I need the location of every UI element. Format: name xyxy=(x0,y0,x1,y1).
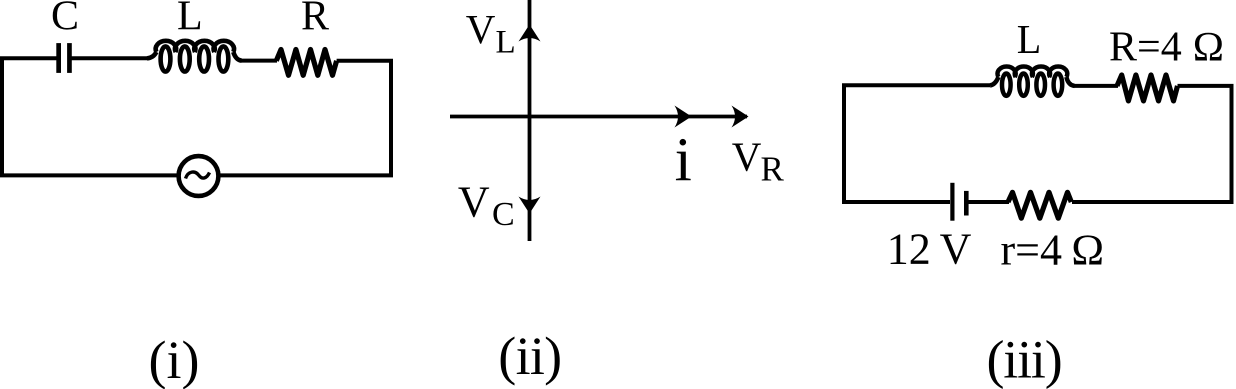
inductor L (4-loop coil) xyxy=(990,66,1075,95)
svg-text:V: V xyxy=(732,133,762,179)
svg-text:r=4 Ω: r=4 Ω xyxy=(1001,225,1105,274)
battery cell 12V: long plate xyxy=(950,183,954,221)
wire: left edge loop (from battery, up left side, to inductor) xyxy=(844,85,990,202)
wire: inductor to resistor xyxy=(241,59,277,63)
battery cell 12V: short plate xyxy=(964,191,969,216)
wire: resistor R to top-right corner, down right edge, along bottom to resistor r xyxy=(1072,86,1232,202)
AC source sine symbol xyxy=(186,172,210,178)
svg-text:(iii): (iii) xyxy=(987,330,1062,389)
axis: vertical line xyxy=(528,0,532,241)
svg-text:R: R xyxy=(301,0,329,39)
arrowhead: up (V_L direction) xyxy=(519,25,541,42)
resistor R (zigzag) xyxy=(276,50,336,76)
svg-text:(ii): (ii) xyxy=(498,326,561,386)
svg-text:(i): (i) xyxy=(149,330,200,389)
arrowhead: mid (i direction) xyxy=(675,106,692,128)
svg-text:R=4 Ω: R=4 Ω xyxy=(1109,24,1224,70)
svg-text:R: R xyxy=(761,150,785,189)
wire: bottom-left loop (left of AC source, up left edge, to capacitor) xyxy=(2,58,179,175)
capacitor C (two plates) xyxy=(59,43,70,73)
svg-text:i: i xyxy=(675,127,692,195)
svg-text:L: L xyxy=(1017,16,1042,62)
inductor L (4-loop coil) xyxy=(147,41,242,72)
svg-text:C: C xyxy=(51,0,79,39)
arrowhead: end (V_R direction) xyxy=(732,106,749,128)
wire: capacitor to inductor xyxy=(72,56,149,60)
arrowhead: down (V_C direction) xyxy=(519,197,541,214)
resistor R=4 ohm (zigzag) xyxy=(1117,75,1178,101)
axis: horizontal line xyxy=(450,115,747,119)
wire: resistor r to battery xyxy=(968,200,1009,204)
wire: resistor to top-right corner, down right edge, to AC source xyxy=(219,61,391,176)
svg-text:V: V xyxy=(466,6,496,52)
svg-text:V: V xyxy=(458,178,490,227)
resistor r=4 ohm (zigzag) xyxy=(1008,192,1071,218)
wire: inductor to resistor R xyxy=(1074,84,1118,88)
svg-text:12 V: 12 V xyxy=(887,225,972,274)
svg-text:L: L xyxy=(496,25,516,61)
AC source (circle with sine wave) xyxy=(179,156,219,196)
svg-text:C: C xyxy=(492,196,515,233)
svg-text:L: L xyxy=(177,0,203,39)
